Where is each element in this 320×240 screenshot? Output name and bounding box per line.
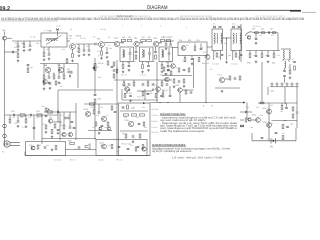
svg-text:1k2: 1k2 [96, 66, 99, 69]
svg-text:0,1: 0,1 [288, 66, 291, 69]
junction between cans [226, 37, 227, 38]
output driver box [119, 103, 151, 156]
wire aerial to right [7, 37, 13, 39]
capacitor under can S2 [147, 65, 150, 66]
capacitor in can S3 [168, 53, 171, 54]
svg-text:47p: 47p [132, 106, 135, 109]
top right faint line [302, 11, 316, 13]
AM drop a [43, 64, 45, 75]
core of can S2 [143, 50, 145, 58]
drop to C16 [170, 41, 172, 43]
transistor TS5 [153, 41, 158, 46]
resistor R96 [142, 92, 144, 96]
TS11 row wire [215, 87, 240, 89]
capacitor C30 [283, 70, 286, 71]
svg-text:470: 470 [166, 66, 169, 69]
capacitor C75 [122, 107, 125, 108]
capacitor C51 [286, 126, 289, 127]
resistor R82 [54, 124, 56, 128]
svg-text:10n: 10n [46, 48, 49, 51]
svg-text:TS19: TS19 [262, 107, 267, 110]
svg-text:TS22: TS22 [175, 84, 180, 87]
svg-text:10n: 10n [253, 54, 256, 57]
resistor R92 [113, 62, 115, 66]
svg-text:150: 150 [90, 106, 93, 109]
resistor R10 [63, 75, 65, 79]
switch drop b [169, 86, 171, 95]
wire TS5 collector [159, 42, 162, 44]
jack circle J1 [3, 124, 7, 128]
svg-text:C22 30p: C22 30p [212, 63, 219, 66]
AM vert x78 [77, 64, 79, 89]
svg-text:TS3: TS3 [114, 37, 119, 40]
resistor R2 [23, 44, 25, 48]
capacitor C71 [154, 51, 157, 52]
svg-text:1: 1 [122, 25, 123, 28]
capacitor C63 [166, 84, 169, 85]
svg-text:og 30 pF opkobling på antennen: og 30 pF opkobling på antennen: [152, 149, 192, 153]
capacitor C39 [101, 125, 104, 126]
svg-text:68p: 68p [233, 50, 236, 53]
svg-text:R2: R2 [22, 42, 24, 45]
svg-text:22k: 22k [206, 62, 209, 65]
tone vert x60 [59, 112, 61, 140]
drop C25 [255, 33, 257, 37]
ground AM b [58, 81, 61, 84]
box top arrow [143, 102, 146, 104]
AM drop b [48, 73, 50, 77]
ground C7 [88, 53, 91, 56]
drop C17 [94, 90, 96, 94]
transistor TS13 [68, 132, 72, 136]
header horizontal rule [0, 9, 301, 11]
svg-text:C9: C9 [214, 50, 216, 53]
resistor R1 [17, 54, 19, 58]
capacitor C28 [267, 55, 270, 56]
svg-text:C19: C19 [196, 39, 199, 42]
capacitor C43 [127, 148, 130, 149]
capacitor C1 [12, 51, 13, 54]
drop C50 [286, 103, 288, 107]
svg-text:47p: 47p [174, 66, 177, 69]
AM drop e [63, 64, 65, 75]
mid vert x58 [57, 90, 59, 122]
transistor TS9 [58, 67, 63, 72]
TS2 collector to IF [104, 42, 114, 44]
svg-text:10n: 10n [284, 58, 287, 61]
svg-text:470: 470 [277, 54, 280, 57]
wire between det cans [223, 37, 232, 39]
resistor R83 [65, 117, 69, 119]
svg-text:TS5: TS5 [153, 37, 158, 40]
IF transformer can S2 [140, 47, 154, 62]
capacitor C39b [114, 111, 117, 112]
right coil T8 [240, 33, 241, 43]
drop wire C2 [17, 41, 19, 44]
volume pot R15 [94, 64, 96, 71]
preamp drop b [98, 104, 100, 111]
svg-text:R41: R41 [60, 124, 63, 127]
capacitor C56 [275, 132, 278, 133]
ground C34 [17, 125, 20, 128]
svg-text:R21: R21 [188, 39, 191, 42]
coil in can S2 [142, 50, 143, 58]
battery B2 [271, 138, 275, 143]
vertical wire x241 [240, 24, 242, 62]
ground AM d [49, 87, 52, 90]
svg-text:7491: 7491 [270, 90, 274, 93]
feed vert x206 [205, 60, 207, 103]
wire C8 to TS2 [97, 43, 99, 45]
drop R32 [273, 51, 275, 54]
resistor R9 [53, 75, 55, 79]
resistor S1b [127, 40, 132, 42]
feed horiz y99 [206, 102, 245, 104]
trimmer on T8 a [232, 26, 235, 28]
AGC bend down [277, 33, 279, 51]
capacitor in can S2 [148, 53, 151, 54]
svg-text:1k2: 1k2 [140, 42, 143, 45]
svg-text:0,1: 0,1 [22, 126, 25, 129]
feed junction b [159, 102, 160, 103]
svg-text:R23: R23 [202, 62, 205, 65]
capacitor C66 [190, 92, 193, 93]
drop x34 [33, 115, 35, 140]
tone wire y138 [42, 138, 96, 140]
svg-text:C1 10p: C1 10p [30, 36, 36, 39]
svg-text:1k2: 1k2 [52, 72, 55, 75]
svg-text:S10: S10 [232, 23, 235, 26]
resistor R78 [135, 55, 137, 59]
resistor R47 [132, 114, 137, 116]
resistor R53 [135, 147, 137, 151]
IF vert x145 down [144, 89, 146, 100]
ground TS11 [221, 90, 224, 93]
capacitor C8 [95, 43, 96, 46]
preamp vert x117 lower [116, 103, 118, 156]
resistor R11 [68, 71, 72, 73]
arrow on feed [243, 101, 246, 103]
ground under can S3 [161, 70, 164, 73]
svg-text:C15: C15 [163, 36, 166, 39]
capacitor C38 [98, 112, 101, 113]
drop wire C3 [29, 41, 31, 44]
left coil T7 [214, 33, 215, 43]
resistor R45b [111, 106, 113, 110]
resistor R31 [261, 54, 263, 58]
core T8 [235, 33, 237, 44]
svg-text:4: 4 [186, 26, 187, 29]
arrow across L2 [46, 36, 61, 45]
svg-text:470: 470 [97, 50, 100, 53]
svg-text:68p: 68p [260, 114, 263, 117]
svg-text:680: 680 [228, 54, 231, 57]
resistor R84 [127, 105, 129, 109]
driver box drop b [191, 56, 193, 58]
svg-text:R1 1M: R1 1M [14, 46, 20, 49]
resistor under can S1 [122, 65, 124, 69]
transistor TS14 [85, 111, 90, 116]
svg-text:R49 1k2: R49 1k2 [152, 120, 159, 123]
svg-text:39k: 39k [122, 132, 125, 135]
battery rail [252, 140, 296, 142]
svg-text:R7: R7 [292, 58, 294, 61]
right coil T7 [221, 33, 222, 43]
vert from junction [226, 38, 228, 60]
coil in can S3 [162, 50, 163, 58]
feed vert x262 [261, 62, 263, 103]
header rule right end [290, 10, 301, 12]
svg-text:1k2: 1k2 [122, 36, 125, 39]
IF transformer can S3 [159, 47, 173, 62]
drop to C7 [88, 44, 90, 49]
svg-text:18k: 18k [250, 126, 253, 129]
resistor R80 [45, 108, 47, 112]
resistor R48 [140, 114, 145, 116]
right col wire [284, 68, 286, 70]
resistor R39 [25, 119, 27, 123]
wire top rail to box5 [165, 40, 174, 42]
capacitor C53 [245, 111, 246, 114]
capacitor C41 [132, 136, 135, 137]
drop R62 [281, 103, 283, 105]
preamp row y130 [88, 130, 112, 132]
bus left drop [24, 152, 26, 156]
capacitor C4 [48, 54, 51, 55]
resistor R76 [170, 71, 172, 75]
svg-text:R15 5k: R15 5k [98, 62, 104, 65]
resistor R38 [9, 119, 11, 123]
under can S3 drop [161, 62, 163, 65]
ground R4 [71, 59, 74, 62]
svg-text:22k: 22k [62, 72, 65, 75]
resistor S1a [121, 40, 126, 42]
svg-text:C9: C9 [60, 114, 62, 117]
svg-text:D2 OA79: D2 OA79 [253, 25, 260, 28]
capacitor C79 [178, 81, 181, 82]
right edge down [296, 121, 298, 129]
wire TS4 collector [139, 42, 143, 44]
module mid drop [284, 87, 286, 104]
resistor R95 [155, 94, 157, 98]
capacitor C50 [285, 107, 288, 108]
svg-text:+: + [267, 138, 269, 141]
svg-text:C9: C9 [247, 34, 249, 37]
wire under box [43, 47, 45, 52]
svg-text:25u: 25u [127, 61, 130, 64]
audio vert x269 [268, 103, 270, 141]
drop to C6 [83, 44, 85, 49]
svg-text:C41 8u: C41 8u [152, 126, 158, 129]
drop wire R2 [23, 41, 25, 43]
choke L11 lead [288, 60, 290, 62]
can S3 inner wire bot [168, 55, 170, 61]
ground C3 [29, 48, 32, 51]
capacitor C6 [83, 50, 86, 51]
wire can S1 to TS4 [133, 43, 135, 45]
svg-text:TS6: TS6 [179, 39, 182, 42]
drive wire [251, 119, 256, 121]
svg-text:R15 1k: R15 1k [160, 74, 166, 77]
lead down right T7 [220, 51, 222, 61]
svg-text:5k6 TR3 220p R9 3k9 C18 1n5 R3: 5k6 TR3 220p R9 3k9 C18 1n5 R31 [180, 15, 213, 18]
ground C4 [48, 57, 51, 60]
choke rail [281, 48, 291, 50]
resistor R32 [273, 54, 275, 58]
transistor TS8 [45, 67, 50, 72]
svg-text:18k: 18k [256, 106, 259, 109]
svg-text:25u: 25u [108, 144, 111, 147]
capacitor C26 [268, 31, 269, 34]
transistor TS12 [62, 132, 66, 136]
capacitor C22 [221, 54, 224, 55]
module pin leads [272, 85, 297, 87]
svg-text:TS26: TS26 [122, 84, 126, 87]
svg-text:C9: C9 [122, 106, 124, 109]
driver box drop a [184, 56, 186, 58]
svg-text:S9: S9 [213, 23, 215, 26]
switch drop a [162, 90, 164, 93]
svg-text:R19 680: R19 680 [137, 96, 144, 99]
svg-text:22k: 22k [121, 42, 124, 45]
capacitor C35 [33, 127, 36, 128]
resistor R28 [261, 32, 265, 34]
core line of L2 [46, 38, 58, 40]
capacitor C54 [296, 112, 299, 113]
ground C15 [165, 47, 168, 50]
parts strip dark segment 1 [1, 20, 58, 23]
resistor R4 [72, 54, 74, 58]
AGC row2 rail [246, 50, 280, 52]
svg-text:TS16: TS16 [124, 119, 130, 122]
capacitor C72 [45, 115, 48, 116]
svg-text:12k: 12k [148, 36, 151, 39]
lead down left T7 [213, 51, 215, 61]
svg-text:2k2: 2k2 [282, 132, 285, 135]
svg-text:47p: 47p [200, 46, 203, 49]
resistor R30 [249, 54, 251, 58]
capacitor in can S1 [129, 53, 132, 54]
transistor TS3 [114, 41, 119, 46]
ground box1 [51, 148, 54, 151]
ground C6 [83, 53, 86, 56]
svg-text:470: 470 [136, 116, 139, 119]
svg-text:1n5: 1n5 [259, 34, 262, 37]
drop to cap under can S3 [167, 62, 169, 65]
svg-text:2k2: 2k2 [272, 62, 275, 65]
resistor R37 [37, 114, 42, 116]
resistor R3 [43, 53, 45, 57]
resistor R67b [66, 59, 68, 63]
diode circle D1 [247, 36, 250, 40]
AM drop c [53, 73, 55, 75]
svg-text:7465: 7465 [47, 30, 53, 33]
resistor R5 [78, 49, 80, 53]
svg-text:4: 4 [203, 105, 205, 108]
svg-text:10n: 10n [104, 126, 107, 129]
TS2 emitter drop [101, 47, 103, 50]
capacitor C32b [293, 61, 296, 62]
tone drop b [69, 112, 71, 126]
capacitor C12 [69, 75, 70, 78]
capacitor C76 [137, 146, 140, 147]
coil in can S1 [123, 50, 124, 58]
svg-text:8p2: 8p2 [30, 66, 33, 69]
svg-text:R58 120: R58 120 [116, 159, 123, 162]
ground tone d [51, 135, 54, 138]
svg-text:680: 680 [142, 106, 145, 109]
svg-text:C55: C55 [290, 123, 293, 126]
ground preamp [98, 132, 101, 135]
svg-text:R15 1k: R15 1k [141, 74, 147, 77]
IF drop w2 [133, 80, 135, 82]
svg-text:R28 C14 4k7: R28 C14 4k7 [117, 15, 134, 18]
svg-text:18k: 18k [8, 118, 11, 121]
svg-text:10n: 10n [153, 60, 156, 63]
IF vert x122 down [121, 89, 123, 100]
trimmer lead into box [57, 31, 59, 36]
audio feed vertical x247 [246, 103, 248, 121]
resistor R89 [173, 79, 175, 83]
svg-text:680: 680 [98, 76, 101, 79]
battery rail right corner [295, 128, 297, 141]
svg-text:8p2: 8p2 [144, 126, 147, 129]
box wire y131 [120, 130, 148, 132]
resistor R77 [185, 90, 187, 94]
detector can T8 [231, 29, 242, 51]
resistor R64 [282, 136, 284, 140]
svg-text:470: 470 [182, 60, 185, 63]
small circle TS15b [99, 127, 102, 131]
resistor R22 [194, 47, 196, 51]
feed junction [205, 102, 206, 103]
resistor under can S3 [161, 65, 163, 69]
resistor R46 [124, 114, 129, 116]
capacitor C15 [165, 44, 168, 45]
TS11 wire [225, 78, 229, 80]
tone arrow [48, 108, 50, 110]
transistor TS7 [205, 55, 210, 60]
capacitor C64 [191, 58, 194, 59]
svg-text:TS14: TS14 [83, 108, 89, 111]
ground R2 [23, 49, 26, 52]
transistor TS26 [125, 87, 130, 92]
capacitor C7 [88, 50, 91, 51]
wire y41 into box [12, 40, 41, 42]
svg-text:R3: R3 [70, 28, 72, 31]
svg-text:R46 10k: R46 10k [152, 108, 159, 111]
svg-text:R56: R56 [68, 140, 71, 143]
capacitor C14 [27, 64, 30, 65]
ground switch a [173, 85, 176, 88]
svg-text:C8 12p: C8 12p [100, 28, 106, 31]
can S1 inner wire top [129, 48, 131, 52]
transistor TS18 [102, 144, 107, 149]
resistor R34 [289, 70, 291, 74]
ground box [132, 140, 135, 143]
trimmer on T8 b [238, 26, 241, 28]
transistor TS19 [267, 109, 272, 114]
resistor R54 [37, 145, 39, 149]
resistor R88 [188, 68, 190, 72]
capacitor C20 [200, 48, 203, 49]
capacitor C78 [183, 69, 186, 70]
transistor TS16 [128, 121, 134, 127]
resistor R35b [294, 66, 296, 70]
svg-text:2: 2 [141, 25, 142, 28]
ground tone a [45, 131, 48, 134]
tone vert x76 [75, 103, 77, 140]
